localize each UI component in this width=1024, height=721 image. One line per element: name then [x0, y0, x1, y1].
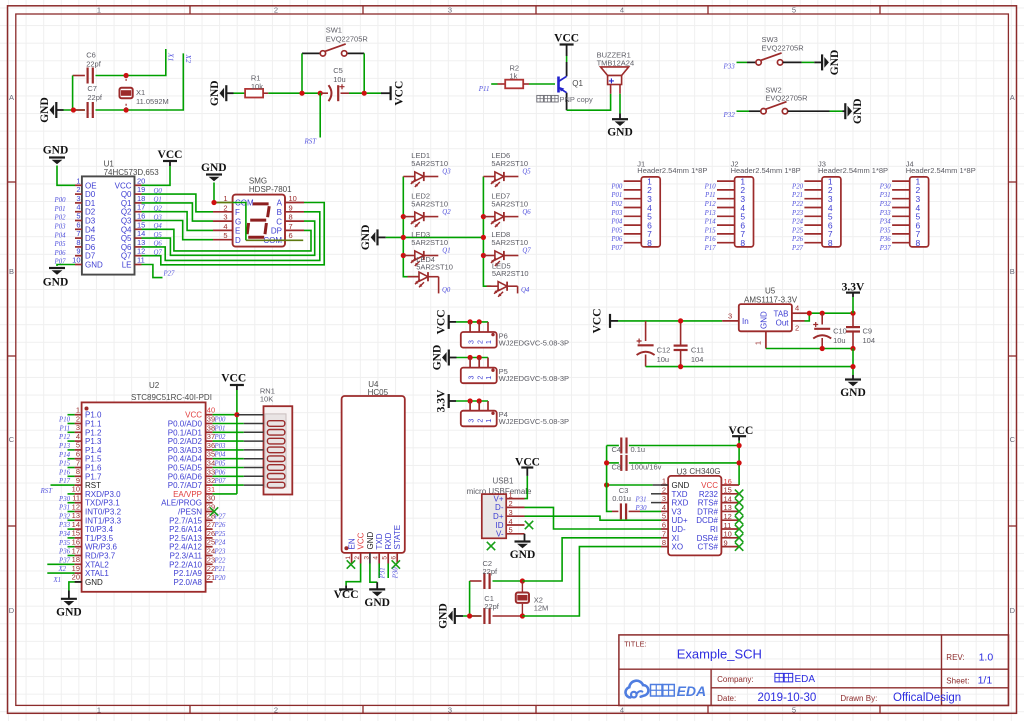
svg-text:4: 4: [76, 203, 80, 212]
svg-text:40: 40: [207, 406, 215, 415]
RN1 resistor element 1: [267, 421, 284, 427]
svg-text:PNP copy: PNP copy: [560, 95, 593, 104]
U4 pin 3 GND: [369, 553, 371, 564]
junction P4 pins: [468, 398, 473, 403]
svg-text:P06: P06: [54, 250, 67, 257]
svg-text:Date:: Date:: [717, 694, 736, 703]
svg-text:6: 6: [76, 220, 80, 229]
svg-text:5AR2ST10: 5AR2ST10: [491, 199, 528, 208]
wire/net P13 at U2 pin 4: [68, 440, 75, 442]
svg-text:VCC: VCC: [592, 308, 604, 333]
U2 pin 19 XTAL1: [75, 572, 82, 574]
svg-text:P33: P33: [58, 522, 71, 529]
svg-text:1: 1: [345, 556, 352, 560]
svg-text:P22: P22: [791, 201, 804, 208]
svg-text:P14: P14: [704, 219, 717, 226]
wire P32 to SW2: [737, 110, 750, 112]
connector P6: [469, 322, 471, 332]
svg-text:P31: P31: [879, 192, 891, 199]
svg-text:A: A: [9, 93, 14, 102]
svg-text:D4: D4: [85, 225, 96, 234]
U4 pin 1 EN: [351, 553, 353, 564]
SMG pin 2 F: [213, 211, 233, 213]
svg-text:30: 30: [207, 494, 215, 503]
svg-text:D2: D2: [85, 208, 96, 217]
svg-text:P00: P00: [610, 183, 623, 190]
svg-text:ALE/PROG: ALE/PROG: [161, 499, 202, 508]
J1 pin 3: [624, 198, 642, 200]
svg-text:Drawn By:: Drawn By:: [840, 694, 877, 703]
svg-text:14: 14: [137, 229, 145, 238]
svg-text:T1/P3.5: T1/P3.5: [85, 534, 114, 543]
svg-text:6: 6: [289, 231, 293, 240]
wire U2 pin40 to rail: [213, 414, 237, 416]
svg-text:14: 14: [72, 520, 80, 529]
svg-text:VCC: VCC: [357, 532, 366, 549]
RN1 resistor element 7: [267, 474, 284, 480]
U3 pin 2 TXD: [661, 493, 668, 495]
ground GND SW3: [822, 54, 829, 70]
svg-text:3.3V: 3.3V: [436, 389, 448, 412]
svg-text:P04: P04: [214, 452, 227, 459]
svg-text:XTAL1: XTAL1: [85, 569, 109, 578]
svg-text:D-: D-: [495, 503, 504, 512]
wire U3 GND pin: [653, 484, 669, 486]
J1 pin 6: [624, 224, 642, 226]
J2 pin 8: [717, 242, 735, 244]
svg-text:19: 19: [137, 185, 145, 194]
svg-text:P01: P01: [214, 425, 226, 432]
wire SW2 to GND: [788, 110, 830, 112]
U3 pin 8 XO: [661, 546, 668, 548]
wire USB D- to U3 UD-: [525, 507, 662, 529]
svg-text:5: 5: [792, 705, 796, 714]
svg-text:Q2: Q2: [121, 208, 132, 217]
junction C10 bottom: [820, 346, 825, 351]
no-connect X at U4 EN: [347, 560, 355, 568]
U2 pin 18 XTAL2: [75, 563, 82, 565]
J1 pin 8: [624, 242, 642, 244]
svg-text:P33: P33: [723, 63, 736, 71]
capacitor C4: [620, 438, 622, 454]
U2 pin 28 P2.7/A15: [206, 519, 213, 521]
wire Q4 U1 to SMG loop: [142, 229, 312, 251]
U2 pin 15 T1/P3.5: [75, 537, 82, 539]
svg-text:DCD#: DCD#: [696, 516, 718, 525]
svg-text:/PESN: /PESN: [178, 508, 202, 517]
svg-text:VCC: VCC: [221, 373, 246, 385]
wire XO riser: [522, 547, 661, 616]
svg-text:TITLE:: TITLE:: [624, 640, 647, 649]
svg-text:5AR2ST10: 5AR2ST10: [492, 269, 529, 278]
svg-text:P06: P06: [610, 236, 623, 243]
ground GND buzzer: [619, 114, 621, 120]
U1 pin 13 Q6: [135, 246, 142, 248]
svg-text:8: 8: [662, 538, 666, 547]
wire/net P30 at U2 pin 10: [68, 493, 75, 495]
wire VCC to U5 In: [618, 320, 722, 322]
wire U2 EA to rail: [213, 493, 237, 495]
svg-text:12: 12: [137, 247, 145, 256]
J4 pin 5: [892, 215, 910, 217]
U2 pin 17 RD/P3.7: [75, 555, 82, 557]
svg-text:15: 15: [72, 529, 80, 538]
svg-text:Example_SCH: Example_SCH: [677, 647, 762, 662]
U1 pin 11 LE: [135, 264, 142, 266]
svg-text:1: 1: [97, 705, 101, 714]
svg-text:GND: GND: [364, 597, 390, 609]
svg-text:B: B: [9, 267, 14, 276]
U2 pin 39 P0.0/AD0: [206, 423, 213, 425]
svg-text:C: C: [276, 217, 282, 226]
svg-text:P21: P21: [791, 192, 803, 199]
wire GND to P5: [457, 357, 489, 359]
svg-text:DP: DP: [271, 227, 282, 236]
svg-text:10k: 10k: [251, 82, 263, 91]
svg-text:GND: GND: [607, 127, 633, 139]
svg-text:V+: V+: [493, 494, 503, 503]
svg-text:GND: GND: [852, 98, 864, 124]
wire U4 RXD: [387, 564, 389, 579]
svg-text:P0.6/AD6: P0.6/AD6: [168, 472, 203, 481]
wire/net P10 at U2 pin 1: [68, 414, 75, 416]
svg-text:104: 104: [691, 355, 704, 364]
svg-text:3: 3: [728, 311, 732, 320]
svg-text:P04: P04: [54, 232, 67, 239]
svg-text:4: 4: [373, 556, 380, 560]
J3 pin 6: [804, 224, 822, 226]
svg-text:5AR2ST10: 5AR2ST10: [411, 159, 448, 168]
svg-text:D0: D0: [85, 190, 96, 199]
wire/net P36 at U2 pin 16: [68, 546, 75, 548]
wire/net P35 at U2 pin 15: [68, 537, 75, 539]
U3 pin 3 RXD: [661, 502, 668, 504]
svg-text:P0.5/AD5: P0.5/AD5: [168, 464, 203, 473]
wire crystal bottom: [463, 615, 482, 617]
J3 pin 1: [804, 180, 822, 182]
svg-text:P20: P20: [791, 183, 804, 190]
wire C6 left to C7: [72, 76, 74, 111]
junction C1 left: [467, 613, 472, 618]
svg-text:P02: P02: [610, 201, 623, 208]
svg-text:F: F: [235, 208, 240, 217]
svg-text:V-: V-: [496, 530, 504, 539]
svg-text:P01: P01: [610, 192, 622, 199]
USB1 pin 5 V-: [506, 533, 524, 535]
svg-text:P1.6: P1.6: [85, 464, 102, 473]
wire VCC rail RN1: [236, 390, 238, 494]
svg-text:RXD: RXD: [672, 499, 689, 508]
svg-text:SW1: SW1: [326, 26, 342, 35]
junction SW1 left: [299, 91, 304, 96]
svg-text:5: 5: [76, 212, 80, 221]
svg-text:2: 2: [223, 203, 227, 212]
svg-text:10u: 10u: [333, 75, 346, 84]
junction LED bus left: [401, 235, 406, 240]
wire R1 to node RST: [263, 92, 268, 94]
svg-text:9: 9: [76, 476, 80, 485]
svg-text:8: 8: [76, 467, 80, 476]
junction P5 pins: [468, 355, 473, 360]
wire Q0 U1 to SMG: [142, 194, 214, 212]
svg-text:P0.7/AD7: P0.7/AD7: [168, 481, 203, 490]
svg-text:P05: P05: [610, 227, 623, 234]
svg-text:B: B: [277, 208, 282, 217]
svg-text:P24: P24: [214, 540, 227, 547]
svg-text:22pf: 22pf: [87, 93, 103, 102]
svg-text:P04: P04: [610, 219, 623, 226]
capacitor C5: [320, 92, 328, 94]
J1 pin 1: [624, 180, 642, 182]
svg-text:10u: 10u: [657, 355, 670, 364]
J1 pin 4: [624, 207, 642, 209]
U2 pin 37 P0.2/AD2: [206, 440, 213, 442]
wire U4 VCC: [346, 564, 361, 586]
svg-text:P02: P02: [214, 434, 227, 441]
U1 pin 14 Q5: [135, 237, 142, 239]
U1 pin 4 D2: [75, 211, 82, 213]
wire VCC to Q1 collector: [566, 56, 568, 62]
wire left rail: [607, 446, 612, 512]
svg-text:19: 19: [72, 564, 80, 573]
svg-text:C8: C8: [612, 462, 622, 471]
no-connect X at USB1 shield: [487, 542, 495, 550]
svg-text:C7: C7: [87, 84, 97, 93]
wire USB D+ to U3 UD+: [525, 516, 662, 520]
U2 pin 36 P0.3/AD3: [206, 449, 213, 451]
svg-text:X2: X2: [184, 54, 193, 64]
junction X2 top: [520, 578, 525, 583]
svg-text:3: 3: [448, 705, 452, 714]
svg-text:TXD: TXD: [375, 533, 384, 549]
svg-text:P16: P16: [58, 469, 71, 476]
svg-text:SMG: SMG: [249, 176, 267, 185]
svg-text:RI: RI: [710, 525, 718, 534]
svg-text:9: 9: [76, 247, 80, 256]
svg-text:4: 4: [76, 432, 80, 441]
U3 pin 13 DTR#: [721, 510, 739, 512]
svg-text:P1.1: P1.1: [85, 420, 102, 429]
svg-text:TMB12A24: TMB12A24: [597, 58, 635, 67]
svg-text:7: 7: [76, 229, 80, 238]
svg-text:GND: GND: [760, 311, 769, 329]
resistor R1: [245, 89, 263, 98]
junction LED bus left: [401, 214, 406, 219]
U1 pin 16 Q3: [135, 220, 142, 222]
svg-text:Q2: Q2: [442, 209, 451, 216]
wire/net P12 at U2 pin 3: [68, 431, 75, 433]
U2 pin 35 P0.4/AD4: [206, 458, 213, 460]
junction X1 wire: [124, 73, 129, 78]
U2 pin 5 P1.4: [75, 449, 82, 451]
title block logo LCEDA: [626, 681, 649, 698]
junction X2 bottom: [520, 613, 525, 618]
wire VCC rail U3: [738, 441, 740, 486]
svg-text:WJ2EDGVC-5.08-3P: WJ2EDGVC-5.08-3P: [499, 374, 569, 383]
wire GND to SMG COM1: [213, 183, 215, 203]
wire/net X2 at U2 pin 18: [47, 563, 74, 565]
svg-text:3: 3: [363, 556, 370, 560]
svg-text:1: 1: [486, 340, 493, 344]
svg-text:11: 11: [72, 494, 80, 503]
U1 pin 5 D3: [75, 220, 82, 222]
svg-text:P11: P11: [478, 85, 490, 93]
svg-text:P11: P11: [59, 425, 70, 432]
capacitor C9: [852, 313, 854, 326]
svg-text:C5: C5: [333, 66, 343, 75]
wire C9 to rail: [852, 349, 854, 376]
wire U3 RXD stub: [651, 502, 661, 504]
no-connect X at U2 pin 29: [210, 507, 218, 515]
svg-text:14: 14: [724, 494, 732, 503]
svg-text:LE: LE: [122, 261, 132, 270]
U1 pin 18 Q1: [135, 202, 142, 204]
J3 pin 5: [804, 215, 822, 217]
wire SW3 to GND: [783, 61, 802, 63]
svg-text:GND: GND: [366, 532, 375, 550]
wire U4 TXD: [378, 564, 380, 579]
svg-text:GND: GND: [201, 162, 227, 174]
svg-text:P00: P00: [54, 197, 67, 204]
crystal X1: [125, 76, 127, 83]
U1 pin 2 D0: [75, 193, 82, 195]
svg-text:RTS#: RTS#: [698, 499, 719, 508]
resistor R2: [505, 80, 523, 89]
J4 pin 4: [892, 207, 910, 209]
svg-text:Company:: Company:: [717, 675, 753, 684]
svg-text:15: 15: [137, 220, 145, 229]
svg-text:3: 3: [76, 194, 80, 203]
svg-text:TAB: TAB: [774, 310, 789, 319]
svg-text:P24: P24: [791, 219, 804, 226]
svg-text:GND: GND: [840, 387, 866, 399]
svg-text:P25: P25: [791, 227, 804, 234]
svg-text:5AR2ST10: 5AR2ST10: [491, 238, 528, 247]
U3 pin 1 GND: [661, 484, 668, 486]
svg-text:17: 17: [137, 203, 145, 212]
power GND P5: [442, 350, 449, 366]
U3 pin 14 RTS#: [721, 502, 739, 504]
svg-text:RD/P3.7: RD/P3.7: [85, 552, 116, 561]
svg-text:C12: C12: [657, 346, 671, 355]
svg-text:P11: P11: [704, 192, 715, 199]
svg-text:P12: P12: [704, 201, 717, 208]
svg-text:2: 2: [662, 485, 666, 494]
svg-text:P0.2/AD2: P0.2/AD2: [168, 437, 203, 446]
U2 pin 3 P1.2: [75, 431, 82, 433]
svg-text:GND: GND: [85, 261, 103, 270]
svg-text:P37: P37: [879, 245, 892, 252]
J2 pin 4: [717, 207, 735, 209]
svg-text:9: 9: [289, 203, 293, 212]
svg-text:C: C: [9, 435, 15, 444]
capacitor C12: [645, 321, 647, 341]
svg-text:Q3: Q3: [121, 217, 132, 226]
svg-text:16: 16: [137, 212, 145, 221]
wire U1 LE to P27: [142, 265, 163, 278]
svg-text:P30: P30: [58, 496, 71, 503]
svg-text:11.0592M: 11.0592M: [136, 97, 169, 106]
svg-text:2: 2: [274, 705, 278, 714]
svg-text:EN: EN: [348, 538, 357, 549]
svg-text:WJ2EDGVC-5.08-3P: WJ2EDGVC-5.08-3P: [499, 338, 569, 347]
svg-text:REV:: REV:: [946, 653, 964, 662]
junction GND-COM: [211, 200, 216, 205]
power VCC P6: [448, 315, 450, 329]
wire SMG COM6 olive: [246, 239, 303, 241]
svg-text:EA/VPP: EA/VPP: [173, 490, 202, 499]
U2 pin 7 P1.6: [75, 467, 82, 469]
svg-text:C9: C9: [863, 327, 873, 336]
wire net X1 top: [73, 75, 85, 77]
capacitor C10: [821, 313, 823, 324]
svg-text:10u: 10u: [833, 336, 846, 345]
svg-text:P07: P07: [214, 478, 227, 485]
wire Q7 U1 to SMG loop: [142, 203, 325, 265]
svg-text:Header2.54mm 1*8P: Header2.54mm 1*8P: [906, 166, 976, 175]
svg-text:P23: P23: [791, 210, 804, 217]
wire Q3 U1 to SMG: [142, 221, 214, 240]
capacitor C1: [483, 608, 485, 624]
U2 pin 34 P0.5/AD5: [206, 467, 213, 469]
U1 pin 12 Q7: [135, 255, 142, 257]
capacitor C2: [483, 573, 485, 589]
wire/net P33 at U2 pin 13: [68, 519, 75, 521]
svg-text:P17: P17: [704, 245, 717, 252]
svg-text:Q1: Q1: [442, 248, 450, 255]
svg-text:In: In: [742, 317, 749, 326]
wire Q2 U1 to SMG: [142, 212, 214, 231]
LED LED1: [403, 176, 415, 178]
svg-text:P37: P37: [58, 557, 71, 564]
svg-text:P21: P21: [214, 566, 226, 573]
U2 pin 29 /PESN: [206, 511, 213, 513]
svg-text:P00: P00: [214, 417, 227, 424]
U4 pin 5 RXD: [387, 553, 389, 564]
junction C8 right: [737, 460, 742, 465]
J2 pin 7: [717, 233, 735, 235]
J3 pin 4: [804, 207, 822, 209]
U2 pin 11 TXD/P3.1: [75, 502, 82, 504]
svg-text:31: 31: [207, 485, 215, 494]
svg-text:2: 2: [477, 340, 484, 344]
transistor Q1: [566, 62, 568, 76]
svg-text:12: 12: [72, 502, 80, 511]
svg-text:1.0: 1.0: [979, 651, 994, 663]
J3 pin 7: [804, 233, 822, 235]
LED LED5: [487, 285, 499, 287]
svg-text:DTR#: DTR#: [697, 507, 718, 516]
U3 pin 5 UD+: [661, 519, 668, 521]
J4 pin 2: [892, 189, 910, 191]
svg-text:D: D: [9, 606, 15, 615]
wire C5 to VCC: [349, 92, 381, 94]
svg-text:C6: C6: [86, 51, 96, 60]
junction left rail GND: [604, 482, 609, 487]
U3 pin 9 CTS#: [721, 546, 739, 548]
svg-text:4: 4: [795, 304, 799, 313]
svg-text:9: 9: [724, 538, 728, 547]
svg-text:C4: C4: [612, 445, 622, 454]
svg-text:P1.0: P1.0: [85, 411, 102, 420]
svg-text:P05: P05: [54, 241, 67, 248]
U2 pin 22 P2.1/A9: [206, 572, 213, 574]
svg-text:WJ2EDGVC-5.08-3P: WJ2EDGVC-5.08-3P: [499, 417, 569, 426]
svg-text:5AR2ST10: 5AR2ST10: [416, 263, 453, 272]
svg-text:3: 3: [469, 376, 476, 380]
svg-text:P32: P32: [723, 111, 736, 119]
svg-text:VCC: VCC: [334, 589, 359, 601]
